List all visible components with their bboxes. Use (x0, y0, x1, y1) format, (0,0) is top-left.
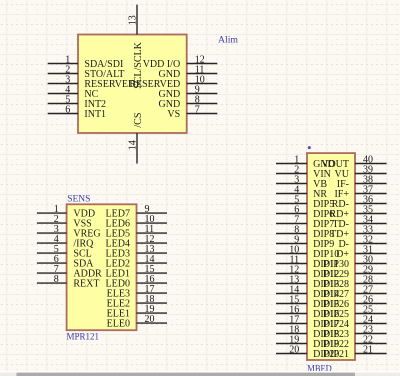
U3 pin 1 GND (276, 154, 335, 170)
U3 pin 8 DIP8 (276, 224, 334, 240)
svg-text:INT1: INT1 (84, 109, 106, 120)
U3 pin 32 D- (338, 234, 386, 250)
svg-text:SCL/SCLK: SCL/SCLK (133, 41, 144, 88)
U3 pin 10 DIP10 (276, 244, 339, 259)
U3 pin 7 DIP7 (276, 214, 334, 230)
IC U1 body (Alim) (78, 35, 187, 134)
U3 pin 5 DIP5 (276, 194, 334, 210)
U3 pin 35 RD+ (329, 204, 386, 220)
U2 pin 7 ADDR (37, 264, 102, 280)
U3 pin 2 VIN (276, 164, 331, 180)
svg-text:14: 14 (128, 140, 139, 150)
svg-text:13: 13 (128, 15, 139, 25)
U2 pin 4 /IRQ (37, 234, 94, 250)
svg-text:21: 21 (363, 344, 373, 355)
U3 pin 26 DIP26 (323, 294, 387, 310)
scrollbar track (0, 371, 400, 373)
U3 pin 31 D+ (336, 244, 386, 259)
U3 designator * (308, 146, 311, 149)
U2 pin 13 LED3 (106, 244, 167, 260)
U2 pin 12 LED4 (106, 234, 167, 250)
U2 pin 11 LED5 (106, 224, 167, 240)
U3 pin 24 DIP24 (323, 314, 387, 330)
svg-text:8: 8 (54, 274, 59, 285)
U3 pin 39 VU (335, 164, 387, 180)
svg-text:20: 20 (289, 344, 299, 355)
svg-text:MPR121: MPR121 (67, 333, 100, 343)
U1 pin 6 INT1 (48, 104, 106, 120)
IC U3 MBED body (307, 153, 355, 360)
svg-text:REXT: REXT (73, 278, 99, 289)
U2 pin 17 ELE3 (107, 284, 167, 300)
svg-text:20: 20 (145, 314, 155, 325)
U3 pin 11 DIP11 (276, 254, 339, 270)
U2 pin 20 ELE0 (107, 314, 167, 330)
U2 pin 18 ELE2 (107, 294, 167, 310)
svg-text:Alim: Alim (218, 36, 239, 46)
svg-text:7: 7 (195, 104, 200, 115)
U3 pin 21 DIP21 (323, 344, 387, 360)
U1 pin 12 VDD I/O (143, 54, 218, 70)
U2 pin 6 SDA (37, 254, 94, 270)
svg-text:SENS: SENS (67, 195, 90, 205)
U3 pin 17 DIP17 (276, 314, 339, 330)
U3 pin 6 DIP6 (276, 204, 334, 220)
U2 pin 2 VSS (37, 214, 92, 230)
U3 pin 4 NR (276, 184, 327, 200)
U2 pin 5 SCL (37, 244, 92, 260)
U3 pin 29 DIP29 (323, 264, 387, 280)
U3 pin 20 DIP20 (276, 344, 339, 360)
svg-text:DIP21: DIP21 (323, 349, 349, 360)
U1 pin 13 SCL/SCLK (top) (128, 5, 144, 89)
U3 pin 15 DIP15 (276, 294, 339, 310)
U2 pin 8 REXT (37, 274, 100, 290)
U3 pin 22 DIP22 (323, 334, 387, 350)
U1 pin 3 RESERVED (48, 74, 136, 90)
U2 pin 15 LED1 (106, 264, 167, 280)
U3 pin 34 TD- (332, 214, 386, 230)
scrollbar thumb (17, 373, 356, 376)
U3 pin 12 DIP12 (276, 264, 339, 280)
U3 pin 9 DIP9 (276, 234, 334, 250)
svg-text:VS: VS (167, 109, 180, 120)
U3 pin 18 DIP18 (276, 324, 339, 340)
U2 pin 14 LED2 (106, 254, 167, 270)
U1 pin 2 STO/ALT (48, 64, 125, 80)
U3 pin 38 IF- (337, 174, 387, 190)
U1 pin 7 VS (167, 104, 217, 120)
U1 pin 9 GND (159, 84, 218, 100)
U3 pin 14 DIP14 (276, 284, 339, 300)
U1 pin 4 NC (48, 84, 99, 100)
U3 pin 36 RD- (332, 194, 387, 210)
U1 pin 14 /CS (bottom) (128, 113, 144, 164)
U3 pin 27 DIP27 (323, 284, 387, 300)
U3 pin 40 VOUT (321, 154, 386, 170)
U1 pin 10 RESERVED (129, 74, 217, 90)
U3 pin 19 DIP19 (276, 334, 339, 350)
U3 pin 25 DIP25 (323, 304, 387, 320)
U2 pin 1 VDD (37, 204, 95, 220)
svg-text:ELE0: ELE0 (107, 318, 130, 329)
U2 pin 19 ELE1 (107, 304, 167, 320)
U3 pin 13 DIP13 (276, 274, 339, 290)
U3 pin 33 TD+ (330, 224, 387, 240)
U3 pin 16 DIP16 (276, 304, 339, 320)
U3 pin 3 VB (276, 174, 327, 190)
U3 pin 30 DIP30 (323, 254, 387, 270)
U1 pin 1 SDA/SDI (48, 54, 124, 70)
U2 pin 16 LED0 (106, 274, 167, 290)
U1 pin 5 INT2 (48, 94, 106, 110)
U1 pin 11 GND (159, 64, 218, 80)
U2 pin 9 LED7 (106, 204, 167, 220)
U3 pin 23 DIP23 (323, 324, 387, 340)
U2 pin 3 VREG (37, 224, 101, 240)
U1 pin 8 GND (159, 94, 218, 110)
svg-text:6: 6 (65, 104, 70, 115)
U3 pin 37 IF+ (334, 184, 386, 200)
IC U2 MPR121 body (67, 204, 137, 330)
U3 pin 28 DIP28 (323, 274, 387, 290)
U2 pin 10 LED6 (106, 214, 167, 230)
svg-text:/CS: /CS (133, 113, 144, 128)
